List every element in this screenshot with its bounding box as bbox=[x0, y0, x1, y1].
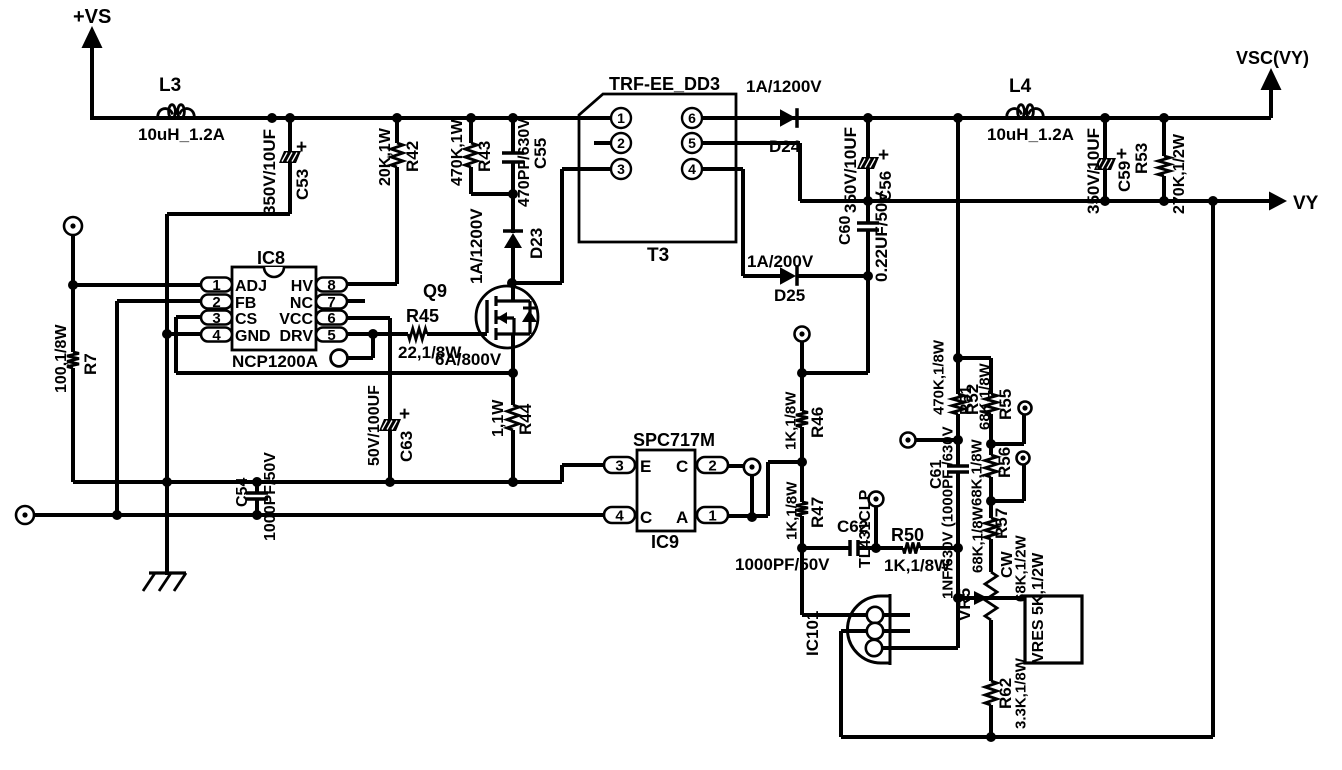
svg-text:TL431CLP: TL431CLP bbox=[857, 489, 874, 568]
resistor R7 bbox=[53, 285, 100, 482]
terminal TP3 bbox=[795, 327, 810, 342]
svg-text:VR5: VR5 bbox=[955, 588, 974, 621]
resistor R42 bbox=[377, 113, 422, 284]
junction Q9 drain bbox=[507, 278, 517, 288]
capacitor C62 bbox=[735, 517, 903, 574]
wire VY rail bbox=[800, 199, 1272, 203]
svg-text:+VS: +VS bbox=[73, 6, 111, 28]
svg-text:50V/100UF: 50V/100UF bbox=[366, 385, 383, 466]
resistor R43 bbox=[449, 113, 494, 194]
resistor R45 bbox=[398, 306, 502, 369]
diode D23 bbox=[467, 196, 546, 284]
T3 pin 3 bbox=[562, 159, 631, 179]
svg-text:6: 6 bbox=[688, 110, 696, 126]
VRES box bbox=[1025, 552, 1082, 663]
IC9 pin 3 bbox=[604, 457, 635, 474]
svg-text:350V/10UF: 350V/10UF bbox=[841, 127, 860, 213]
svg-text:100,1/8W: 100,1/8W bbox=[53, 324, 70, 393]
wire R50 line left bbox=[802, 546, 850, 550]
T3 pin 5 bbox=[682, 133, 702, 153]
IC8 pin 6 bbox=[316, 310, 347, 327]
IC8 pin 7 bbox=[316, 294, 347, 311]
wire VCC bbox=[346, 318, 390, 421]
svg-text:C60: C60 bbox=[837, 216, 854, 245]
T3 pin 6 bbox=[682, 108, 702, 128]
svg-text:1A/1200V: 1A/1200V bbox=[746, 77, 822, 96]
wire DRV bbox=[346, 329, 408, 339]
svg-text:VRES 5K,1/2W: VRES 5K,1/2W bbox=[1030, 552, 1047, 663]
diode D25 bbox=[747, 252, 868, 305]
svg-text:4: 4 bbox=[688, 161, 696, 177]
svg-text:3.3K,1/8W: 3.3K,1/8W bbox=[1012, 657, 1029, 729]
wire wiper to lead3 bbox=[956, 598, 960, 648]
diode D24 bbox=[746, 77, 822, 156]
T3 pin 1 bbox=[611, 108, 631, 128]
svg-text:7: 7 bbox=[327, 294, 335, 311]
capacitor C53 bbox=[260, 118, 312, 215]
terminal R55 bbox=[991, 389, 1032, 444]
svg-text:R55: R55 bbox=[996, 389, 1015, 420]
svg-text:R53: R53 bbox=[1132, 143, 1151, 174]
wire C53 to ground column bbox=[167, 214, 290, 575]
ground symbol bbox=[143, 573, 186, 591]
svg-text:IC8: IC8 bbox=[257, 248, 285, 268]
svg-text:1: 1 bbox=[617, 110, 625, 126]
svg-text:1: 1 bbox=[212, 277, 220, 294]
svg-text:6A/800V: 6A/800V bbox=[435, 350, 502, 369]
svg-text:C: C bbox=[640, 508, 652, 527]
resistor R51 bbox=[930, 339, 974, 445]
junction C56-VY bbox=[863, 196, 873, 206]
IC8 pin 4 bbox=[201, 327, 232, 344]
capacitor C54 bbox=[234, 452, 279, 541]
power symbol +VS bbox=[73, 6, 111, 120]
svg-text:FB: FB bbox=[235, 295, 256, 312]
wire CS pin3 bbox=[176, 317, 201, 373]
terminal R56 bbox=[991, 452, 1030, 502]
svg-text:68K,1/8W: 68K,1/8W bbox=[976, 362, 993, 430]
svg-text:10uH_1.2A: 10uH_1.2A bbox=[138, 125, 225, 144]
wire pin3 to drain bbox=[512, 169, 562, 283]
power symbol VSC(VY) bbox=[1236, 48, 1309, 118]
svg-text:350V/10UF: 350V/10UF bbox=[260, 129, 279, 215]
IC8 pin labels bbox=[235, 278, 313, 345]
wire top rail right segment bbox=[702, 116, 1271, 120]
svg-text:1K,1/8W: 1K,1/8W bbox=[783, 481, 800, 540]
wire top rail left segment bbox=[92, 116, 611, 120]
wire bottom rail bbox=[841, 735, 1213, 739]
IC8 pin 2 bbox=[201, 294, 232, 311]
svg-text:TRF-EE_DD3: TRF-EE_DD3 bbox=[609, 74, 720, 94]
svg-text:NC: NC bbox=[290, 295, 314, 312]
IC9 pin 4 bbox=[604, 507, 635, 524]
resistor R52 bbox=[958, 358, 997, 449]
svg-text:C54: C54 bbox=[234, 478, 251, 507]
svg-text:+: + bbox=[296, 137, 307, 158]
svg-text:C53: C53 bbox=[293, 169, 312, 200]
svg-text:1: 1 bbox=[708, 507, 716, 524]
capacitor C60 bbox=[837, 191, 891, 282]
TL431 ref circle bbox=[857, 489, 884, 568]
svg-text:SPC717M: SPC717M bbox=[633, 430, 715, 450]
wire CS to source bbox=[176, 371, 513, 375]
svg-text:1,1W: 1,1W bbox=[490, 399, 507, 437]
svg-text:CS: CS bbox=[235, 311, 258, 328]
IC9 pin 2 bbox=[697, 457, 728, 474]
svg-text:2: 2 bbox=[617, 135, 625, 151]
svg-text:3: 3 bbox=[212, 310, 220, 327]
wire GND pin4 bbox=[162, 329, 201, 339]
resistor R47 bbox=[783, 462, 827, 553]
svg-text:L3: L3 bbox=[159, 75, 181, 96]
svg-text:4: 4 bbox=[615, 507, 624, 524]
capacitor C63 bbox=[366, 385, 416, 487]
svg-text:4: 4 bbox=[212, 327, 221, 344]
capacitor C56 bbox=[841, 113, 895, 213]
svg-text:68K,1/8W: 68K,1/8W bbox=[968, 438, 985, 506]
svg-text:8: 8 bbox=[327, 277, 335, 294]
svg-text:R50: R50 bbox=[891, 525, 924, 545]
wire pin5 elbow bbox=[702, 143, 800, 201]
wire pin4 elbow bbox=[702, 169, 780, 276]
capacitor C61 bbox=[928, 426, 969, 599]
wire TP3 stub bbox=[797, 341, 807, 378]
svg-text:C63: C63 bbox=[397, 431, 416, 462]
svg-text:E: E bbox=[640, 457, 651, 476]
T3 pin 4 bbox=[682, 159, 702, 179]
transistor Q9 bbox=[423, 281, 538, 374]
svg-text:1K,1/8W: 1K,1/8W bbox=[782, 391, 799, 450]
T3 pin 2 bbox=[594, 133, 631, 153]
capacitor C55 bbox=[502, 113, 550, 207]
IC IC8 body bbox=[232, 248, 318, 371]
inductor L3 bbox=[138, 75, 225, 144]
svg-text:VSC(VY): VSC(VY) bbox=[1236, 48, 1309, 68]
svg-text:270K,1/2W: 270K,1/2W bbox=[1171, 133, 1188, 214]
svg-text:2: 2 bbox=[212, 294, 220, 311]
transformer T3 body bbox=[579, 74, 736, 266]
svg-text:C55: C55 bbox=[531, 138, 550, 169]
svg-text:VY: VY bbox=[1293, 193, 1319, 214]
svg-text:R43: R43 bbox=[475, 141, 494, 172]
svg-text:0.22UF/50V: 0.22UF/50V bbox=[872, 191, 891, 282]
wire TP1 down bbox=[68, 235, 78, 290]
svg-text:+: + bbox=[1116, 144, 1127, 165]
resistor R56 bbox=[968, 438, 1014, 506]
svg-text:A: A bbox=[676, 508, 688, 527]
wire divider drop bbox=[953, 113, 963, 363]
IC IC101 bbox=[802, 548, 958, 665]
wire pin2 stub down bbox=[747, 475, 757, 522]
wire FB bbox=[117, 301, 201, 517]
inductor L4 bbox=[987, 76, 1074, 144]
svg-text:1A/1200V: 1A/1200V bbox=[467, 208, 486, 284]
wire C60 to R46 node bbox=[802, 276, 868, 373]
potentiometer VR5 bbox=[955, 534, 1029, 681]
terminal TP1 bbox=[64, 217, 82, 235]
wire R43 bottom bbox=[471, 189, 518, 199]
svg-text:1NF/630V (1000PF /630V: 1NF/630V (1000PF /630V bbox=[939, 426, 956, 599]
svg-text:R42: R42 bbox=[403, 141, 422, 172]
IC8 bulk circle bbox=[331, 334, 373, 366]
wire R42 to pin8 bbox=[346, 282, 397, 286]
IC8 pin 8 bbox=[316, 277, 347, 294]
svg-text:D24: D24 bbox=[769, 137, 801, 156]
svg-text:1000PF/50V: 1000PF/50V bbox=[735, 555, 830, 574]
junction Q9 source bbox=[508, 368, 518, 378]
wire NC stub bbox=[346, 299, 365, 303]
svg-text:VCC: VCC bbox=[279, 311, 313, 328]
svg-text:1000PF/50V: 1000PF/50V bbox=[262, 452, 279, 541]
svg-text:350V/10UF: 350V/10UF bbox=[1084, 128, 1103, 214]
svg-text:IC101: IC101 bbox=[803, 611, 822, 656]
svg-text:R47: R47 bbox=[808, 497, 827, 528]
svg-text:D25: D25 bbox=[774, 286, 805, 305]
svg-text:2: 2 bbox=[708, 457, 716, 474]
IC8 pin 1 bbox=[201, 277, 232, 294]
resistor R44 bbox=[490, 373, 535, 487]
svg-text:68K,1/2W: 68K,1/2W bbox=[1012, 534, 1029, 602]
wire ADJ bbox=[73, 283, 201, 287]
terminal TP4 bbox=[901, 433, 959, 448]
svg-text:ADJ: ADJ bbox=[235, 278, 267, 295]
svg-text:DRV: DRV bbox=[280, 328, 314, 345]
wire lower line bbox=[34, 510, 604, 520]
svg-text:GND: GND bbox=[235, 328, 271, 345]
svg-text:T3: T3 bbox=[647, 245, 669, 266]
svg-text:R45: R45 bbox=[406, 306, 439, 326]
svg-text:R56: R56 bbox=[995, 447, 1014, 478]
resistor R53 bbox=[1132, 113, 1188, 214]
wire IC9 pin2 bbox=[728, 464, 744, 468]
svg-text:20K,1W: 20K,1W bbox=[377, 127, 394, 186]
svg-text:5: 5 bbox=[688, 135, 696, 151]
wire IC9 pin1 bbox=[728, 462, 803, 516]
svg-text:Q9: Q9 bbox=[423, 281, 447, 301]
svg-text:R46: R46 bbox=[808, 407, 827, 438]
svg-text:NCP1200A: NCP1200A bbox=[232, 352, 318, 371]
svg-text:R7: R7 bbox=[81, 353, 100, 375]
resistor R50 bbox=[884, 525, 963, 575]
IC8 pin 3 bbox=[201, 310, 232, 327]
IC IC9 body bbox=[633, 430, 715, 552]
svg-text:L4: L4 bbox=[1009, 76, 1032, 97]
svg-text:R57: R57 bbox=[992, 508, 1011, 539]
svg-text:HV: HV bbox=[291, 278, 314, 295]
svg-text:5: 5 bbox=[327, 327, 335, 344]
resistor R46 bbox=[782, 373, 827, 467]
IC8 pin 5 bbox=[316, 327, 347, 344]
capacitor C59 bbox=[1084, 113, 1134, 214]
svg-text:+: + bbox=[878, 145, 889, 166]
IC9 pin 1 bbox=[697, 507, 728, 524]
svg-text:D23: D23 bbox=[527, 228, 546, 259]
wire IC101 anode down bbox=[839, 631, 843, 737]
VR5 wiper bbox=[958, 591, 1025, 605]
junction D25-C60 bbox=[863, 271, 873, 281]
wire right loop bbox=[1208, 196, 1218, 737]
svg-text:3: 3 bbox=[617, 161, 625, 177]
junction rail-C53 bbox=[267, 113, 295, 123]
resistor R62 bbox=[985, 657, 1029, 742]
svg-text:IC9: IC9 bbox=[651, 532, 679, 552]
terminal TP2 bbox=[16, 506, 34, 524]
IC9 pin2 circle bbox=[744, 459, 760, 475]
svg-text:6: 6 bbox=[327, 310, 335, 327]
wire divider mid bbox=[953, 548, 963, 603]
svg-text:68K,1/8W: 68K,1/8W bbox=[969, 505, 986, 573]
svg-text:1A/200V: 1A/200V bbox=[747, 252, 814, 271]
svg-text:R44: R44 bbox=[516, 403, 535, 435]
output arrow VY bbox=[1269, 192, 1319, 215]
svg-text:C: C bbox=[676, 457, 688, 476]
svg-text:+: + bbox=[399, 404, 410, 425]
svg-text:3: 3 bbox=[615, 457, 623, 474]
resistor R57 bbox=[969, 501, 1011, 573]
svg-text:470K,1/8W: 470K,1/8W bbox=[930, 339, 947, 415]
svg-text:470K,1W: 470K,1W bbox=[449, 118, 466, 186]
wire primary ground rail bbox=[73, 465, 604, 487]
svg-text:10uH_1.2A: 10uH_1.2A bbox=[987, 125, 1074, 144]
